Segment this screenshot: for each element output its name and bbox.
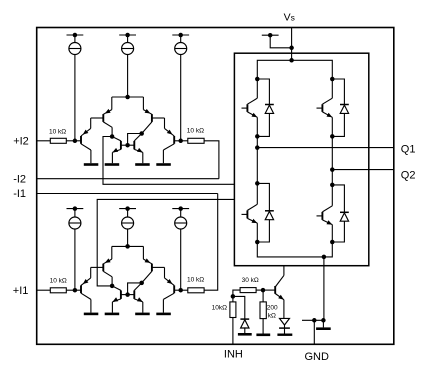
svg-text:200: 200 bbox=[267, 304, 278, 311]
svg-text:Q2: Q2 bbox=[401, 169, 416, 181]
svg-text:Vs: Vs bbox=[284, 11, 295, 23]
svg-text:10 kΩ: 10 kΩ bbox=[187, 128, 204, 135]
svg-text:30 kΩ: 30 kΩ bbox=[242, 277, 259, 284]
svg-text:GND: GND bbox=[305, 351, 330, 363]
svg-text:+I2: +I2 bbox=[13, 135, 29, 147]
svg-text:Q1: Q1 bbox=[401, 143, 416, 155]
svg-text:-I2: -I2 bbox=[13, 173, 26, 185]
svg-text:INH: INH bbox=[224, 349, 243, 361]
svg-text:10 kΩ: 10 kΩ bbox=[49, 128, 66, 135]
svg-text:10 kΩ: 10 kΩ bbox=[187, 277, 204, 284]
svg-text:-I1: -I1 bbox=[13, 188, 26, 200]
svg-text:+I1: +I1 bbox=[13, 285, 29, 297]
svg-text:kΩ: kΩ bbox=[268, 312, 276, 319]
svg-text:10 kΩ: 10 kΩ bbox=[50, 277, 67, 284]
svg-text:10kΩ: 10kΩ bbox=[212, 305, 227, 312]
